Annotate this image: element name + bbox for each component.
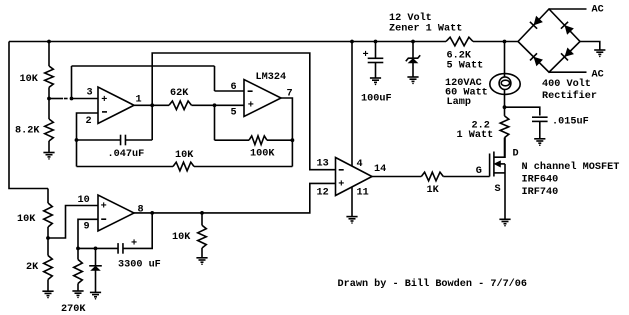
wire U1d output (372, 176, 421, 178)
svg-text:G: G (476, 166, 482, 177)
diode D zener 12V (406, 55, 420, 61)
wire to 3300uF (78, 247, 118, 249)
svg-text:+: + (101, 202, 107, 213)
wire source stub (494, 172, 505, 174)
capacitor C 3300uF (118, 243, 123, 254)
transistor Q1 body arrow (494, 161, 500, 167)
wire bridge right to ground (580, 42, 600, 50)
resistor R 100K (249, 136, 267, 145)
wire pin9 feed (78, 219, 98, 248)
wire left rail (9, 42, 48, 189)
svg-text:Lamp: Lamp (447, 97, 471, 108)
label U1a minus (102, 111, 107, 113)
ground below pin11 (346, 217, 357, 221)
svg-text:D: D (513, 149, 519, 160)
wire lamp top lead (504, 42, 506, 75)
wire pin3 node to op-amp (72, 98, 99, 100)
diode D1 (89, 265, 102, 267)
svg-text:3300 uF: 3300 uF (118, 260, 161, 271)
ground below 10K output (196, 258, 207, 262)
wire diode to ground (95, 270, 97, 292)
ground below 100uF (370, 78, 381, 82)
wire pin11 drop (351, 188, 353, 217)
resistor R 2K (44, 256, 53, 280)
resistor R 10K lower-left (44, 203, 53, 227)
wire 270K to ground (77, 284, 79, 291)
wire AC top (549, 8, 587, 10)
node lamp rail (503, 40, 507, 44)
svg-text:10K: 10K (175, 150, 194, 161)
wire rail to 10K (48, 42, 50, 67)
svg-text:N channel MOSFET: N channel MOSFET (522, 161, 620, 173)
node 100uF rail (374, 40, 378, 44)
node pin5 (213, 103, 217, 107)
wire AC bottom (549, 71, 587, 73)
svg-text:62K: 62K (170, 88, 189, 99)
node pin3 (70, 97, 74, 101)
resistor R 10K mid (173, 162, 194, 171)
svg-text:+: + (338, 180, 344, 191)
svg-text:11: 11 (357, 188, 369, 199)
svg-text:+: + (248, 100, 254, 111)
node 270K top (76, 247, 80, 251)
label U1d minus (339, 169, 344, 171)
wire bridge edges (518, 9, 580, 72)
ground below .015uF (534, 139, 545, 143)
wire pin5 drop (214, 105, 216, 140)
wire source lead (504, 164, 506, 219)
svg-text:Drawn by - Bill Bowden - 7/7/0: Drawn by - Bill Bowden - 7/7/06 (338, 278, 528, 290)
wire pin2 feed (77, 113, 99, 167)
wire 6.2K to bridge (473, 41, 518, 43)
svg-text:S: S (495, 184, 501, 195)
svg-text:AC: AC (592, 70, 604, 81)
svg-text:100K: 100K (250, 149, 275, 160)
wire pin4 riser (351, 42, 353, 167)
node divider top (47, 40, 51, 44)
svg-text:+: + (101, 95, 107, 106)
svg-text:8: 8 (138, 205, 144, 216)
resistor R 10K output (198, 225, 207, 248)
capacitor C .015uF (532, 117, 548, 121)
wire pin3 to pin6 top run (72, 65, 215, 67)
node output to 3300uF (150, 211, 154, 215)
ground below 2K (42, 291, 53, 295)
wire 3300uF to output node (124, 213, 153, 249)
node 100K right (291, 138, 295, 142)
svg-text:Rectifier: Rectifier (542, 90, 597, 102)
svg-text:.015uF: .015uF (552, 117, 589, 128)
svg-text:3: 3 (87, 88, 93, 99)
wire cap left lead (77, 139, 121, 141)
svg-text:6: 6 (231, 82, 237, 93)
resistor R 270K (74, 260, 83, 284)
wire 2K to ground (47, 280, 49, 292)
wire zener top lead (412, 42, 414, 59)
wire zener bottom lead (412, 63, 414, 77)
resistor R 10K upper-left (45, 66, 54, 87)
svg-text:1K: 1K (427, 185, 440, 196)
capacitor C 100uF (368, 58, 384, 62)
wire 10K out to ground (201, 248, 203, 258)
wire lamp bottom lead (504, 94, 506, 107)
wire to .015uF (505, 107, 540, 115)
ground below source (499, 219, 510, 223)
op-amp U1b LM324 (244, 80, 281, 117)
wire U1a output (134, 104, 152, 106)
node lamp bottom (503, 105, 507, 109)
wire 8.2K to ground (48, 141, 50, 152)
ground below zener (407, 77, 418, 81)
wire node to pin10 (48, 206, 98, 239)
wire 10K to node (48, 87, 50, 98)
svg-text:9: 9 (84, 222, 90, 233)
transistor Q1 MOSFET gate bar (489, 154, 491, 177)
wire to 2.2 resistor (504, 107, 506, 116)
svg-text:13: 13 (317, 159, 329, 170)
ground below 270K (72, 291, 83, 295)
op-amp U1c (98, 195, 134, 231)
wire pin3 riser (71, 66, 73, 99)
wire 10K out top lead (201, 213, 203, 225)
resistor R 8.2K (45, 119, 54, 141)
svg-text:5: 5 (231, 108, 237, 119)
op-amp U1a (98, 87, 134, 124)
wire rail corner to 10K lower (47, 189, 49, 204)
wire dashed divider to pin3 (49, 98, 63, 100)
svg-text:2K: 2K (26, 262, 39, 273)
node cap feedback left (75, 138, 79, 142)
svg-text:270K: 270K (61, 304, 86, 315)
svg-text:14: 14 (374, 164, 386, 175)
resistor 6.2K 5 Watt (446, 37, 473, 46)
svg-text:IRF640: IRF640 (522, 175, 559, 186)
wire node to 2K (47, 238, 49, 256)
svg-text:AC: AC (592, 5, 604, 16)
wire to 62K (152, 104, 169, 106)
wire 1K to gate (443, 176, 489, 178)
wire 62K to pin5 (192, 104, 245, 106)
svg-text:400 Volt: 400 Volt (542, 78, 591, 90)
svg-text:1 Watt: 1 Watt (457, 130, 494, 141)
svg-text:100uF: 100uF (361, 94, 392, 105)
resistor R 1K (421, 172, 443, 181)
ground bridge right (594, 50, 605, 54)
svg-text:4: 4 (357, 159, 363, 170)
wire node to 8.2K (48, 99, 50, 120)
wire drain stub (494, 138, 505, 158)
label U1b minus (248, 90, 253, 92)
ground below 8.2K (43, 153, 54, 157)
wire .015uF to ground (539, 121, 541, 138)
wire 100K right lead (267, 139, 292, 141)
diode bridge lower-right (565, 48, 573, 56)
label U1c minus (101, 218, 106, 220)
svg-text:12: 12 (317, 188, 329, 199)
wire top supply rail (9, 41, 446, 43)
op-amp U1d (336, 158, 373, 196)
diode bridge upper-left (534, 17, 542, 25)
capacitor C .047uF (121, 135, 126, 146)
svg-text:2: 2 (86, 116, 92, 127)
node diode top (94, 247, 98, 251)
wire cap right lead (125, 139, 152, 141)
node pin4 rail (350, 40, 354, 44)
svg-text:IRF740: IRF740 (522, 187, 559, 198)
wire bottom run left (77, 166, 174, 168)
node zener rail (411, 40, 415, 44)
wire U1c output run (134, 183, 336, 213)
svg-text:8.2K: 8.2K (15, 126, 40, 137)
svg-text:5 Watt: 5 Watt (447, 61, 484, 72)
wire 100uF top lead (375, 42, 377, 59)
resistor R 62K (169, 101, 192, 110)
svg-text:.047uF: .047uF (108, 149, 145, 160)
wire 100K left lead (215, 139, 250, 141)
wire U1b output (281, 98, 292, 167)
node output to 10K (200, 211, 204, 215)
svg-text:LM324: LM324 (256, 72, 287, 83)
svg-text:Zener 1 Watt: Zener 1 Watt (389, 23, 462, 34)
node divider mid (47, 97, 51, 101)
svg-text:12 Volt: 12 Volt (389, 12, 432, 24)
wire 2.2 to drain (504, 138, 506, 158)
svg-text:10K: 10K (17, 214, 36, 225)
wire 100uF bottom lead (375, 63, 377, 78)
diode bridge upper-right (565, 26, 573, 34)
svg-text:+: + (363, 50, 369, 61)
svg-text:1: 1 (136, 95, 142, 106)
svg-text:10K: 10K (172, 232, 191, 243)
node lower divider (46, 236, 50, 240)
wire 270K top lead (77, 248, 79, 259)
svg-text:10: 10 (78, 195, 90, 206)
wire output riser (152, 53, 335, 170)
wire bottom run right (194, 166, 292, 168)
lamp 120VAC 60 Watt (490, 74, 520, 95)
wire pin6 drop (214, 66, 216, 91)
diode bridge lower-left (534, 57, 542, 65)
svg-text:10K: 10K (20, 74, 39, 85)
wire 10K lower to node (47, 227, 49, 238)
wire pin6 feed (215, 90, 245, 92)
resistor R 2.2 1 Watt (500, 116, 509, 138)
ground below diode (90, 292, 101, 296)
transistor Q1 channel bar (493, 152, 495, 177)
wire diode top lead (95, 248, 97, 265)
node U1a output (150, 103, 154, 107)
